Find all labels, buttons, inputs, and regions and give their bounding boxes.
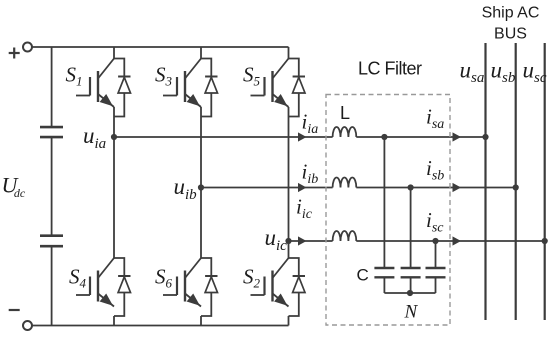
node filter-cap tap phase a [381, 134, 387, 140]
node uia (phase a inverter output) [111, 134, 117, 140]
wire collector stem S1 [113, 47, 115, 59]
transistor S4 (IGBT) [76, 258, 114, 307]
node uic (phase c inverter output) [285, 238, 291, 244]
capacitor Cfb [401, 268, 421, 277]
wire top dc bus [32, 46, 289, 48]
capacitor Cdc2 [40, 236, 63, 247]
terminal + (positive dc input) [23, 43, 32, 52]
diode across S1 (anti-parallel) [114, 59, 131, 117]
wire filter cap b to neutral bus [410, 277, 412, 293]
arrow current isa [453, 132, 462, 141]
arrow current iic [298, 236, 307, 245]
wire phase node to collector S4 [113, 137, 115, 258]
arrow current iib [298, 183, 307, 192]
node bus connection phase c [542, 238, 548, 244]
diode across S4 (anti-parallel) [114, 258, 131, 316]
wire emitter S1 to phase node [113, 107, 115, 137]
node bus connection phase a [482, 134, 488, 140]
label - [9, 309, 20, 311]
arrow current isb [453, 183, 462, 192]
svg-text:L: L [340, 103, 350, 123]
transistor S2 (IGBT) [251, 258, 289, 307]
label + [9, 48, 20, 59]
node uib (phase b inverter output) [198, 184, 204, 190]
svg-text:LC Filter: LC Filter [358, 59, 422, 79]
wire emitter S2 to bottom bus [288, 316, 290, 326]
arrow current isc [453, 236, 462, 245]
wire collector stem S3 [200, 47, 202, 59]
wire phase node to collector S6 [200, 188, 202, 259]
wire tap phase a down to filter cap [383, 137, 385, 268]
wire phase a from node to filter inductor [114, 136, 333, 138]
node N (filter neutral) [407, 290, 413, 296]
LC filter dashed boundary box [326, 95, 450, 326]
svg-text:C: C [357, 266, 369, 285]
wire tap phase c down to filter cap [435, 241, 437, 268]
node filter-cap tap phase b [408, 184, 414, 190]
node filter-cap tap phase c [432, 238, 438, 244]
transistor S5 (IGBT) [251, 59, 289, 108]
wire tap phase b down to filter cap [410, 188, 412, 269]
wire phase a inductor to ship bus a [356, 136, 485, 138]
wire filter cap c to neutral bus [435, 277, 437, 293]
wire dc-link rail lower [51, 246, 53, 325]
diode across S6 (anti-parallel) [201, 258, 218, 316]
diode across S2 (anti-parallel) [289, 258, 306, 316]
node bus connection phase b [513, 184, 519, 190]
wire ship ac bus line c [544, 43, 546, 320]
wire phase c from node to filter inductor [289, 240, 333, 242]
wire emitter S5 to phase node [288, 107, 290, 241]
wire neutral bus [384, 292, 435, 294]
terminal - (negative dc input) [23, 321, 32, 330]
wire emitter S3 to phase node [200, 107, 202, 188]
wire ship ac bus line a [484, 43, 486, 320]
wire phase b from node to filter inductor [201, 187, 333, 189]
inductor L phase a [333, 127, 357, 137]
transistor S6 (IGBT) [163, 258, 201, 307]
svg-text:Ship AC: Ship AC [482, 5, 540, 22]
arrow current iia [298, 132, 307, 141]
capacitor Cdc1 [40, 127, 63, 137]
transistor S3 (IGBT) [163, 59, 201, 108]
diode across S3 (anti-parallel) [201, 59, 218, 117]
wire emitter S4 to bottom bus [113, 316, 115, 326]
wire bottom dc bus [32, 325, 289, 327]
diode across S5 (anti-parallel) [289, 59, 306, 117]
wire phase b inductor to ship bus b [356, 187, 515, 189]
inductor L phase c [333, 231, 357, 241]
wire collector stem S5 [288, 47, 290, 59]
wire dc-link rail upper [51, 47, 53, 127]
capacitor Cfc [426, 268, 446, 277]
wire phase c inductor to ship bus c [356, 240, 544, 242]
svg-text:N: N [404, 302, 419, 323]
wire dc-link rail middle [51, 137, 53, 236]
wire filter cap a to neutral bus [383, 277, 385, 293]
inductor L phase b [333, 178, 357, 188]
wire ship ac bus line b [515, 43, 517, 320]
wire phase node to collector S2 [288, 241, 290, 258]
wire emitter S6 to bottom bus [200, 316, 202, 326]
capacitor Cfa [374, 268, 394, 277]
svg-text:BUS: BUS [494, 26, 527, 43]
transistor S1 (IGBT) [76, 59, 114, 108]
